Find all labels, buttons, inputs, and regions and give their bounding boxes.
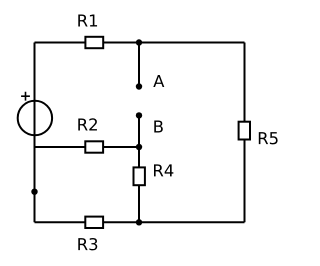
label node A: [153, 75, 164, 87]
label R2: [78, 118, 97, 130]
junction dot: node B stub top: [136, 112, 142, 118]
label R4: [154, 164, 173, 176]
junction dot: node A on top net: [136, 39, 142, 45]
wire: node B stub down through R4 to bottom net: [138, 115, 140, 222]
junction dot: R4 branch meets bottom net: [136, 219, 142, 225]
wire: right vertical (through R5): [244, 43, 246, 223]
label R3: [78, 238, 97, 250]
wire: top net from top-left corner to top-right corner: [35, 42, 245, 44]
label R1: [78, 15, 97, 27]
wire: middle net (through R2): [35, 146, 140, 148]
voltage source V1 (circle): [18, 101, 52, 135]
plus sign of source V1: [21, 92, 30, 101]
junction dot: left wire node: [31, 189, 37, 195]
label R5: [259, 132, 278, 144]
label node B: [154, 121, 163, 133]
wire: left vertical (through source V1): [34, 43, 36, 223]
resistor R3 (body): [85, 217, 103, 228]
resistor R2 (body): [85, 141, 103, 152]
junction dot: node A stub end: [136, 83, 142, 89]
junction dot: middle net meets R4 branch: [136, 144, 142, 150]
resistor R1 (body): [85, 37, 103, 48]
wire: bottom net: [35, 221, 245, 223]
resistor R5 (body, vertical): [239, 122, 250, 140]
wire: node A stub: [138, 43, 140, 87]
resistor R4 (body, vertical): [134, 167, 145, 185]
